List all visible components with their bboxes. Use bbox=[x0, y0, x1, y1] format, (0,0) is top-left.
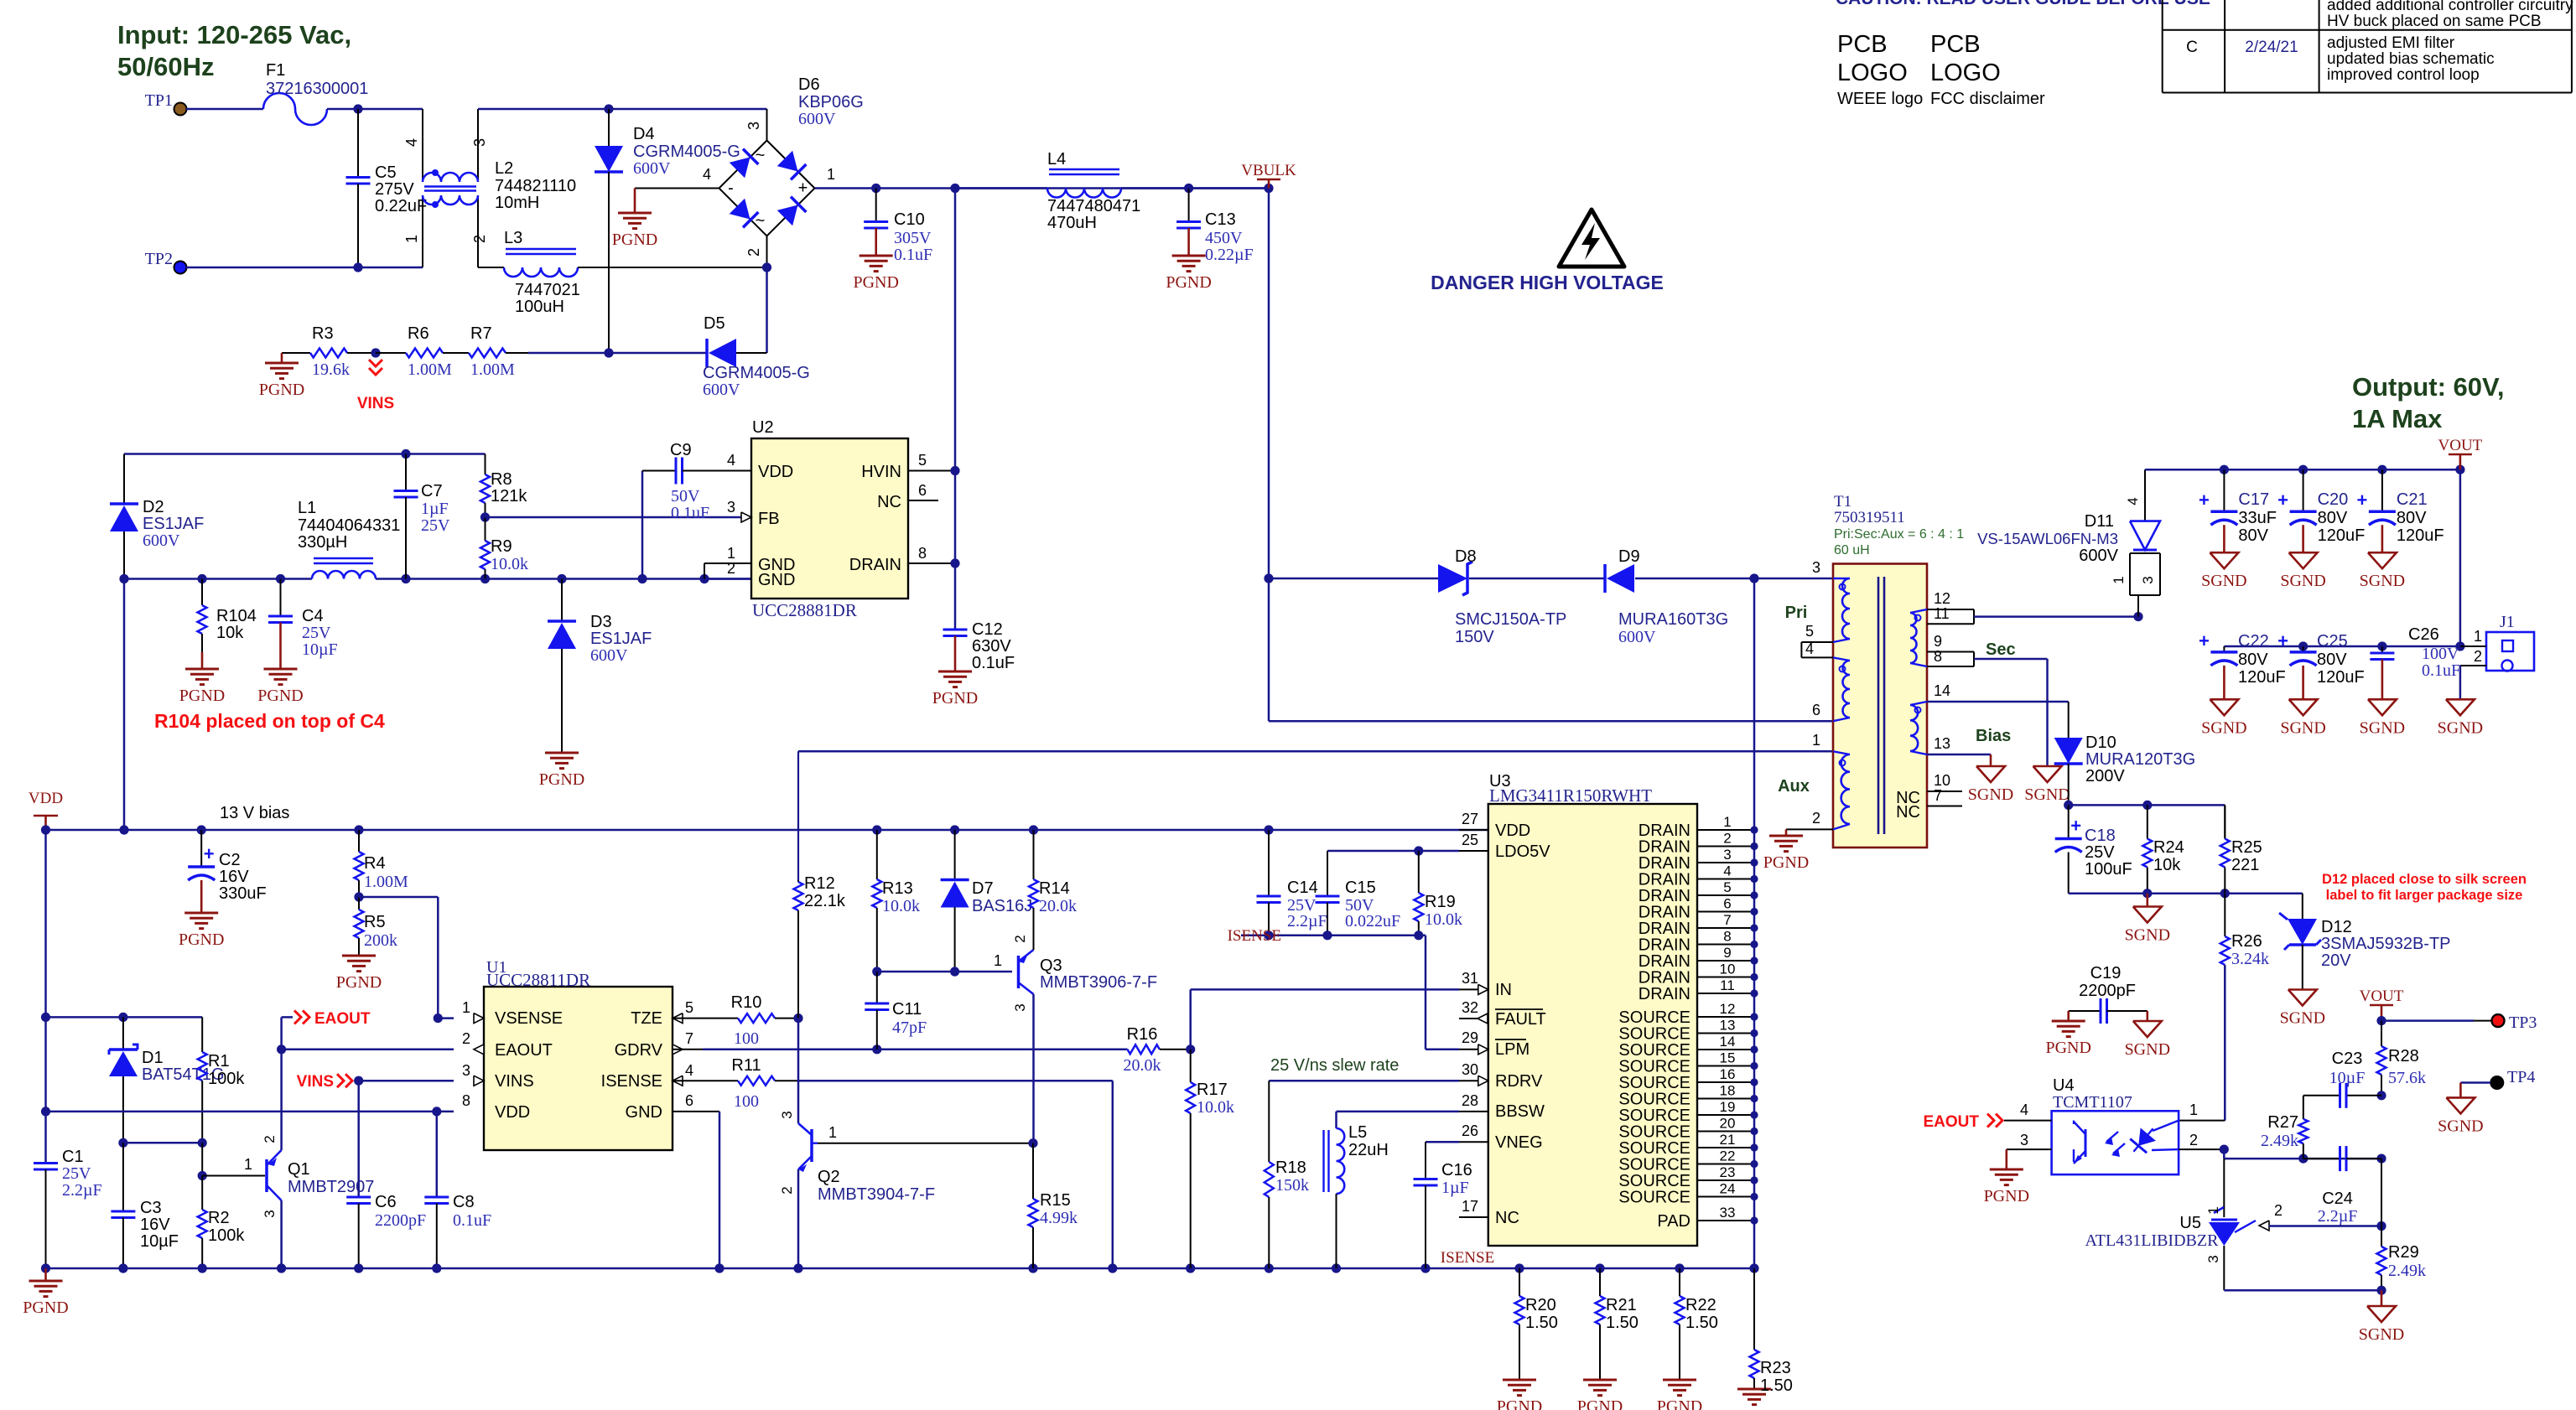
svg-text:1.00M: 1.00M bbox=[408, 360, 452, 379]
svg-text:R11: R11 bbox=[731, 1056, 761, 1075]
svg-text:C15: C15 bbox=[1345, 879, 1376, 897]
svg-text:1.50: 1.50 bbox=[1525, 1314, 1558, 1332]
svg-text:221: 221 bbox=[2231, 856, 2259, 874]
text caution bbox=[1836, 0, 2210, 8]
svg-text:20: 20 bbox=[1720, 1116, 1736, 1132]
wire IN net bbox=[1191, 989, 1459, 1049]
svg-text:2: 2 bbox=[2189, 1132, 2198, 1148]
svg-text:BBSW: BBSW bbox=[1495, 1102, 1545, 1121]
svg-text:KBP06G: KBP06G bbox=[798, 93, 864, 111]
pin U2 DRAIN bbox=[908, 562, 955, 564]
wire primary bottom bbox=[1269, 720, 1833, 723]
svg-text:VINS: VINS bbox=[495, 1072, 534, 1091]
ground PGND bridge bbox=[612, 189, 719, 250]
svg-text:SMCJ150A-TP: SMCJ150A-TP bbox=[1455, 610, 1566, 629]
inductor L4 bbox=[955, 150, 1189, 232]
svg-text:R24: R24 bbox=[2153, 838, 2184, 857]
resistor R3 bbox=[292, 324, 376, 379]
svg-text:33uF: 33uF bbox=[2238, 509, 2277, 527]
svg-text:SGND: SGND bbox=[2125, 1040, 2170, 1059]
inductor L1 bbox=[298, 499, 400, 579]
wire U1 GND bbox=[673, 1112, 719, 1268]
svg-text:ISENSE: ISENSE bbox=[601, 1072, 662, 1091]
wire RDRV net bbox=[1269, 1081, 1459, 1162]
svg-text:13: 13 bbox=[1934, 735, 1950, 752]
svg-text:D7: D7 bbox=[972, 879, 994, 898]
diode D11 bbox=[1977, 469, 2160, 616]
svg-text:630V: 630V bbox=[972, 637, 1011, 656]
svg-text:+: + bbox=[2199, 490, 2210, 511]
svg-text:VSENSE: VSENSE bbox=[495, 1009, 563, 1028]
svg-text:L4: L4 bbox=[1047, 150, 1066, 168]
svg-text:VINS: VINS bbox=[357, 395, 394, 412]
svg-text:50/60Hz: 50/60Hz bbox=[117, 52, 214, 81]
test point TP1 bbox=[145, 91, 187, 116]
resistor R6 bbox=[376, 324, 453, 379]
svg-text:C8: C8 bbox=[453, 1193, 475, 1211]
svg-text:10.0k: 10.0k bbox=[491, 555, 528, 573]
svg-text:VS-15AWL06FN-M3: VS-15AWL06FN-M3 bbox=[1977, 530, 2118, 547]
svg-text:20.0k: 20.0k bbox=[1124, 1056, 1161, 1075]
svg-text:8: 8 bbox=[918, 545, 927, 562]
svg-text:C22: C22 bbox=[2238, 632, 2269, 651]
svg-text:EAOUT: EAOUT bbox=[314, 1010, 371, 1028]
svg-text:47pF: 47pF bbox=[892, 1019, 927, 1037]
svg-text:C6: C6 bbox=[375, 1193, 397, 1211]
svg-text:MMBT3904-7-F: MMBT3904-7-F bbox=[818, 1185, 935, 1204]
ground SGND D12 bbox=[2280, 990, 2325, 1028]
svg-text:D8: D8 bbox=[1455, 547, 1477, 566]
wire switch rail bbox=[119, 574, 751, 583]
test point TP2 bbox=[145, 250, 187, 274]
svg-text:LMG3411R150RWHT: LMG3411R150RWHT bbox=[1489, 785, 1652, 806]
svg-text:SGND: SGND bbox=[2201, 572, 2246, 590]
resistor R17 bbox=[1186, 1050, 1234, 1268]
svg-text:PGND: PGND bbox=[932, 689, 978, 708]
svg-text:100uF: 100uF bbox=[2085, 860, 2132, 879]
svg-text:7: 7 bbox=[1723, 912, 1731, 928]
svg-text:80V: 80V bbox=[2318, 509, 2348, 527]
wire L2 to bridge top bbox=[478, 104, 767, 140]
ground SGND J1 bbox=[2438, 666, 2483, 737]
wire R25 to D12 bbox=[2225, 894, 2303, 919]
wire ground rail bottom bbox=[41, 1263, 1759, 1273]
svg-text:D5: D5 bbox=[704, 314, 725, 333]
capacitor C26 bbox=[2360, 625, 2460, 737]
svg-text:100k: 100k bbox=[208, 1226, 245, 1245]
svg-text:R2: R2 bbox=[208, 1209, 230, 1227]
svg-text:2.2µF: 2.2µF bbox=[62, 1181, 102, 1200]
ground PGND T1 pin2 bbox=[1763, 829, 1833, 872]
svg-text:L2: L2 bbox=[495, 159, 513, 178]
svg-text:0.1uF: 0.1uF bbox=[453, 1211, 491, 1230]
resistor R27 bbox=[2261, 1113, 2308, 1159]
svg-text:100: 100 bbox=[734, 1029, 759, 1048]
text PCB logo FCC bbox=[1930, 31, 2045, 108]
svg-text:120uF: 120uF bbox=[2317, 668, 2365, 687]
svg-text:~: ~ bbox=[756, 212, 766, 231]
svg-text:R1: R1 bbox=[208, 1052, 230, 1070]
svg-text:R25: R25 bbox=[2231, 838, 2262, 857]
svg-text:C4: C4 bbox=[302, 607, 324, 625]
wire LDO5V row bbox=[1327, 846, 1459, 896]
resistor R28 bbox=[2377, 1021, 2427, 1096]
svg-text:330uF: 330uF bbox=[219, 884, 267, 903]
pins U3 DRAIN bbox=[1639, 814, 1758, 1003]
svg-text:C9: C9 bbox=[670, 441, 692, 459]
test point TP3 bbox=[2381, 1013, 2537, 1032]
svg-text:4: 4 bbox=[703, 166, 711, 183]
svg-text:FAULT: FAULT bbox=[1495, 1010, 1546, 1029]
svg-text:PGND: PGND bbox=[179, 687, 225, 705]
svg-text:updated bias schematic: updated bias schematic bbox=[2327, 50, 2495, 68]
svg-text:14: 14 bbox=[1720, 1034, 1736, 1050]
svg-text:D3: D3 bbox=[590, 613, 612, 631]
svg-text:-: - bbox=[728, 179, 734, 198]
svg-text:FCC disclaimer: FCC disclaimer bbox=[1930, 90, 2045, 108]
svg-text:121k: 121k bbox=[491, 487, 527, 505]
svg-text:74404064331: 74404064331 bbox=[298, 516, 400, 535]
resistor R19 bbox=[1414, 851, 1462, 936]
svg-text:7447021: 7447021 bbox=[515, 281, 580, 299]
svg-text:3: 3 bbox=[1812, 559, 1820, 576]
svg-text:C26: C26 bbox=[2408, 625, 2439, 644]
svg-text:R6: R6 bbox=[408, 324, 429, 343]
svg-text:R7: R7 bbox=[470, 324, 492, 343]
svg-text:C: C bbox=[2186, 39, 2198, 56]
transistor Q3 bbox=[994, 908, 1157, 1143]
svg-text:U2: U2 bbox=[752, 418, 774, 437]
svg-text:0.22µF: 0.22µF bbox=[1205, 246, 1254, 264]
svg-text:100uH: 100uH bbox=[515, 298, 564, 316]
wire GDRV row bbox=[673, 1045, 1128, 1054]
resistor R7 bbox=[453, 324, 528, 379]
svg-text:2.2µF: 2.2µF bbox=[1287, 912, 1327, 930]
svg-text:GND: GND bbox=[626, 1103, 662, 1122]
resistor R11 bbox=[673, 1056, 1113, 1268]
svg-text:3.24k: 3.24k bbox=[2231, 950, 2269, 968]
svg-text:L3: L3 bbox=[504, 229, 522, 247]
resistor R1 bbox=[198, 1017, 246, 1143]
svg-text:R16: R16 bbox=[1127, 1025, 1158, 1044]
svg-text:5: 5 bbox=[918, 452, 927, 469]
capacitor C19 bbox=[2045, 964, 2170, 1059]
svg-text:SGND: SGND bbox=[1968, 785, 2013, 804]
svg-text:LDO5V: LDO5V bbox=[1495, 842, 1550, 861]
svg-text:R4: R4 bbox=[364, 854, 386, 873]
svg-text:HVIN: HVIN bbox=[861, 463, 901, 481]
svg-text:J1: J1 bbox=[2500, 613, 2515, 631]
pin U3 PAD bbox=[1657, 1205, 1758, 1231]
svg-text:SGND: SGND bbox=[2438, 718, 2483, 737]
pin U3 stubs left bbox=[1459, 830, 1488, 1217]
svg-text:PGND: PGND bbox=[179, 930, 224, 949]
svg-text:3: 3 bbox=[2205, 1255, 2221, 1262]
svg-text:20.0k: 20.0k bbox=[1039, 897, 1077, 915]
svg-text:305V: 305V bbox=[894, 229, 932, 247]
svg-text:C19: C19 bbox=[2090, 964, 2122, 982]
svg-text:D6: D6 bbox=[798, 75, 820, 94]
resistor R26 bbox=[2220, 894, 2269, 1121]
wire VDD row U1 bbox=[46, 1107, 454, 1116]
svg-text:NC: NC bbox=[1495, 1209, 1519, 1227]
svg-text:1: 1 bbox=[403, 235, 420, 243]
svg-text:Q1: Q1 bbox=[288, 1160, 310, 1179]
svg-text:2.49k: 2.49k bbox=[2388, 1262, 2426, 1280]
svg-text:10: 10 bbox=[1720, 962, 1736, 977]
capacitor C2 bbox=[179, 830, 267, 949]
svg-text:+: + bbox=[204, 843, 215, 864]
svg-text:3: 3 bbox=[2140, 576, 2156, 583]
svg-text:200V: 200V bbox=[2085, 767, 2125, 785]
inductor L5 bbox=[1324, 1123, 1389, 1268]
svg-text:1: 1 bbox=[1723, 814, 1731, 830]
svg-text:470uH: 470uH bbox=[1047, 214, 1097, 232]
ground PGND main bbox=[23, 1268, 68, 1317]
wire U2 gnd pins bbox=[704, 563, 751, 579]
wire aux pin1 bbox=[798, 751, 1833, 880]
capacitor C15 bbox=[1316, 879, 1401, 936]
text PCB logo WEEE bbox=[1837, 31, 1923, 108]
svg-text:~: ~ bbox=[756, 147, 766, 165]
svg-text:HV buck placed on same PCB: HV buck placed on same PCB bbox=[2327, 13, 2542, 30]
svg-text:3: 3 bbox=[727, 499, 735, 516]
svg-text:25V: 25V bbox=[302, 624, 331, 642]
svg-text:16V: 16V bbox=[219, 868, 249, 886]
svg-text:VDD: VDD bbox=[1495, 822, 1530, 840]
svg-text:+: + bbox=[2277, 490, 2288, 511]
svg-text:VDD: VDD bbox=[495, 1103, 530, 1122]
svg-text:R15: R15 bbox=[1040, 1191, 1071, 1210]
svg-text:2.2µF: 2.2µF bbox=[2318, 1207, 2358, 1226]
svg-text:D11: D11 bbox=[2085, 512, 2114, 531]
wire U4 pin2 row bbox=[2179, 1145, 2386, 1164]
svg-text:DRAIN: DRAIN bbox=[1639, 985, 1690, 1003]
capacitor C24 bbox=[2303, 1146, 2381, 1226]
svg-text:17: 17 bbox=[1462, 1198, 1478, 1215]
svg-text:6: 6 bbox=[918, 482, 927, 499]
svg-text:VOUT: VOUT bbox=[2360, 988, 2404, 1005]
resistor R21 bbox=[1577, 1268, 1639, 1410]
svg-text:32: 32 bbox=[1462, 999, 1478, 1016]
svg-text:2: 2 bbox=[745, 248, 762, 257]
svg-text:5: 5 bbox=[685, 999, 693, 1016]
svg-text:GND: GND bbox=[758, 571, 795, 589]
svg-text:2: 2 bbox=[779, 1186, 795, 1194]
svg-text:1: 1 bbox=[2205, 1206, 2221, 1214]
svg-text:120uF: 120uF bbox=[2318, 526, 2366, 545]
svg-text:MURA120T3G: MURA120T3G bbox=[2085, 750, 2195, 769]
svg-text:C2: C2 bbox=[219, 851, 241, 869]
capacitor C12 bbox=[932, 620, 1015, 708]
wire TP2 rail bbox=[186, 262, 423, 272]
svg-text:PGND: PGND bbox=[612, 231, 657, 249]
svg-text:8: 8 bbox=[1723, 929, 1731, 945]
shunt reference U5 ATL431 bbox=[2085, 1159, 2283, 1290]
svg-text:2: 2 bbox=[1812, 810, 1820, 827]
svg-text:PGND: PGND bbox=[1166, 273, 1211, 292]
ground PGND U4 bbox=[1984, 1149, 2052, 1205]
svg-text:25 V/ns slew rate: 25 V/ns slew rate bbox=[1270, 1056, 1399, 1075]
svg-text:1: 1 bbox=[1812, 732, 1820, 749]
pin T1 sec 12 11 bbox=[1927, 609, 1974, 624]
svg-text:7: 7 bbox=[1934, 787, 1942, 804]
svg-text:1.00M: 1.00M bbox=[470, 360, 515, 379]
svg-text:NC: NC bbox=[877, 493, 901, 511]
svg-text:DANGER HIGH VOLTAGE: DANGER HIGH VOLTAGE bbox=[1431, 272, 1664, 293]
svg-text:C5: C5 bbox=[375, 163, 397, 182]
svg-text:1: 1 bbox=[828, 1124, 837, 1141]
op-amp U3 LMG3411R150RWHT bbox=[1462, 772, 1697, 1246]
svg-text:SGND: SGND bbox=[2360, 718, 2405, 737]
svg-text:4: 4 bbox=[403, 138, 420, 147]
wire bias pin14 bbox=[1927, 702, 2069, 738]
svg-text:2: 2 bbox=[471, 235, 488, 243]
svg-text:TP4: TP4 bbox=[2507, 1068, 2535, 1086]
svg-text:750319511: 750319511 bbox=[1834, 509, 1905, 526]
wire Q3 base row bbox=[872, 967, 1012, 976]
test point TP4 bbox=[2438, 1068, 2535, 1135]
net label VINS right bbox=[297, 1073, 454, 1091]
resistor R14 bbox=[1029, 830, 1077, 950]
net label EAOUT right bbox=[1924, 1113, 2052, 1131]
svg-text:PGND: PGND bbox=[336, 973, 382, 992]
svg-text:2: 2 bbox=[727, 560, 735, 577]
svg-text:VINS: VINS bbox=[297, 1073, 334, 1091]
svg-text:5: 5 bbox=[1805, 623, 1814, 640]
capacitor C8 bbox=[424, 1112, 491, 1268]
svg-text:R23: R23 bbox=[1760, 1359, 1791, 1377]
svg-text:1.50: 1.50 bbox=[1760, 1376, 1793, 1395]
svg-text:LOGO: LOGO bbox=[1930, 60, 2001, 86]
svg-text:9: 9 bbox=[1723, 945, 1731, 961]
svg-text:2: 2 bbox=[2474, 648, 2482, 665]
svg-text:744821110: 744821110 bbox=[495, 177, 576, 195]
capacitor C18 bbox=[2055, 805, 2132, 893]
svg-text:1: 1 bbox=[2189, 1102, 2198, 1118]
svg-text:0.22uF: 0.22uF bbox=[375, 197, 427, 215]
revision table bbox=[2163, 0, 2573, 93]
svg-text:U5: U5 bbox=[2179, 1214, 2201, 1232]
wire R26 to U4 pin1 bbox=[2179, 965, 2225, 1121]
svg-text:Bias: Bias bbox=[1976, 727, 2011, 745]
resistor R104 bbox=[179, 579, 257, 706]
svg-text:BAS16J: BAS16J bbox=[972, 897, 1032, 915]
svg-text:3SMAJ5932B-TP: 3SMAJ5932B-TP bbox=[2321, 935, 2451, 953]
svg-text:R20: R20 bbox=[1525, 1296, 1556, 1314]
svg-text:SGND: SGND bbox=[2359, 1325, 2404, 1344]
svg-text:25V: 25V bbox=[2085, 843, 2115, 862]
svg-text:SGND: SGND bbox=[2280, 1009, 2325, 1028]
svg-text:C12: C12 bbox=[972, 620, 1003, 639]
pin T1 NC stubs bbox=[1927, 791, 1962, 806]
resistor R20 bbox=[1497, 1268, 1558, 1410]
resistor R10 bbox=[673, 993, 803, 1048]
svg-text:12: 12 bbox=[1720, 1001, 1736, 1017]
svg-text:ES1JAF: ES1JAF bbox=[143, 515, 204, 533]
resistor R24 bbox=[2142, 805, 2184, 893]
svg-text:+: + bbox=[2277, 630, 2288, 651]
svg-text:3: 3 bbox=[2020, 1132, 2028, 1148]
svg-text:MMBT2907: MMBT2907 bbox=[288, 1178, 374, 1196]
wire 13V bias rail bbox=[41, 804, 1488, 835]
svg-text:10µF: 10µF bbox=[2329, 1069, 2366, 1087]
wire FB bbox=[486, 516, 742, 519]
svg-text:C7: C7 bbox=[421, 482, 443, 500]
svg-text:600V: 600V bbox=[633, 159, 671, 178]
wire bias gnd row bbox=[2069, 889, 2230, 898]
svg-text:DRAIN: DRAIN bbox=[849, 556, 901, 574]
pins U3 SOURCE bbox=[1618, 1001, 1758, 1207]
svg-text:1µF: 1µF bbox=[421, 500, 449, 518]
svg-text:LOGO: LOGO bbox=[1837, 60, 1908, 86]
svg-text:31: 31 bbox=[1462, 970, 1478, 987]
net label VINS down bbox=[357, 348, 394, 412]
svg-text:C3: C3 bbox=[140, 1199, 162, 1217]
svg-text:CGRM4005-G: CGRM4005-G bbox=[633, 143, 740, 161]
diode D12 zener bbox=[2279, 913, 2451, 990]
svg-text:C14: C14 bbox=[1287, 879, 1318, 897]
wire TP1 to fuse bbox=[186, 108, 263, 111]
svg-text:2: 2 bbox=[462, 1030, 470, 1047]
svg-text:PGND: PGND bbox=[1732, 1407, 1777, 1410]
svg-text:2: 2 bbox=[2274, 1202, 2283, 1219]
pin U2 NC bbox=[908, 500, 938, 501]
capacitor C6 bbox=[346, 1081, 426, 1268]
svg-text:R13: R13 bbox=[882, 879, 913, 898]
svg-text:R104 placed on top of C4: R104 placed on top of C4 bbox=[154, 710, 385, 732]
resistor R13 bbox=[872, 830, 920, 972]
svg-text:PGND: PGND bbox=[1577, 1397, 1623, 1410]
svg-text:F1: F1 bbox=[266, 61, 285, 80]
svg-text:1A Max: 1A Max bbox=[2352, 404, 2443, 433]
svg-text:UCC28811DR: UCC28811DR bbox=[486, 970, 590, 990]
wire D1 R1 top rail bbox=[46, 1013, 203, 1022]
svg-text:10: 10 bbox=[1934, 772, 1950, 789]
svg-text:C1: C1 bbox=[62, 1148, 84, 1166]
svg-text:1: 1 bbox=[827, 166, 835, 183]
capacitor C22 bbox=[2199, 630, 2286, 737]
capacitor C14 bbox=[1257, 830, 1327, 936]
svg-text:600V: 600V bbox=[798, 110, 836, 128]
svg-text:C25: C25 bbox=[2317, 632, 2348, 651]
svg-text:0.1uF: 0.1uF bbox=[894, 246, 932, 264]
svg-text:TZE: TZE bbox=[631, 1009, 662, 1028]
diode D1 schottky bbox=[109, 1017, 225, 1143]
resistor R16 bbox=[1124, 1025, 1196, 1075]
svg-text:3: 3 bbox=[262, 1210, 278, 1217]
svg-text:R29: R29 bbox=[2388, 1243, 2419, 1262]
svg-text:26: 26 bbox=[1462, 1122, 1478, 1139]
svg-text:R26: R26 bbox=[2231, 932, 2262, 951]
svg-text:600V: 600V bbox=[590, 646, 628, 665]
svg-text:2200pF: 2200pF bbox=[375, 1211, 426, 1230]
svg-text:25V: 25V bbox=[421, 516, 450, 535]
diode D4 bbox=[595, 109, 740, 353]
diode D5 bbox=[703, 314, 810, 399]
svg-text:FB: FB bbox=[758, 510, 780, 528]
pin T1 5 4 bracket bbox=[1801, 642, 1833, 657]
svg-text:D12 placed close to silk scree: D12 placed close to silk screen bbox=[2322, 872, 2527, 887]
wire HV bulk vertical bbox=[950, 189, 959, 630]
svg-text:0.1uF: 0.1uF bbox=[2422, 661, 2460, 680]
resistor R18 bbox=[1265, 1159, 1309, 1268]
ground SGND sec bbox=[1974, 659, 2070, 804]
text heading input bbox=[117, 20, 351, 81]
svg-text:150V: 150V bbox=[1455, 628, 1494, 646]
svg-text:R19: R19 bbox=[1425, 893, 1456, 911]
common mode choke L2 bbox=[403, 109, 576, 267]
